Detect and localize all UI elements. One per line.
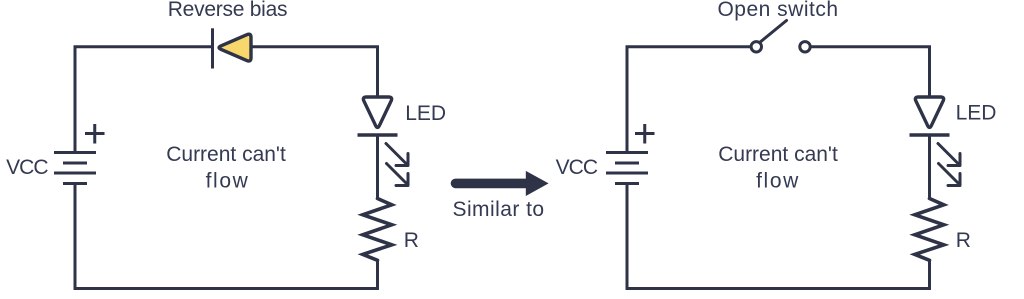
LED (right) triangle: [915, 97, 943, 127]
battery VCC (right) plate 4 short (-): [615, 182, 639, 185]
svg-text:R: R: [956, 229, 971, 252]
battery VCC (left) plate 1 long (+): [54, 151, 96, 154]
arrow: similar to (head): [526, 171, 549, 196]
battery VCC (left) plate 2 short: [63, 162, 87, 165]
switch S1 left contact: [751, 42, 761, 52]
wire: left circuit top run, VCC+ up to diode cathode bar: [75, 47, 213, 153]
svg-text:R: R: [404, 229, 419, 252]
battery VCC (left) plate 3 long: [54, 172, 96, 175]
plus sign (left battery): [85, 124, 105, 144]
LED (left) light arrow 2: [387, 164, 409, 186]
diode D1 (reverse-biased, yellow): [219, 34, 251, 61]
svg-text:Reverse bias: Reverse bias: [168, 0, 288, 21]
svg-text:LED: LED: [956, 102, 997, 125]
switch S1 right contact: [800, 42, 810, 52]
svg-text:Current can't: Current can't: [718, 143, 838, 166]
svg-text:Current can't: Current can't: [166, 143, 286, 166]
battery VCC (right) plate 3 long: [606, 172, 648, 175]
battery VCC (left) plate 4 short (-): [63, 182, 87, 185]
wire: right circuit bottom run (VCC- down, across bottom, up to resistor): [627, 184, 930, 289]
LED (left) light arrow 1: [386, 144, 408, 166]
LED (right) light arrow 2: [939, 164, 961, 186]
arrow: similar to (shaft): [456, 179, 528, 189]
wire: diode anode across to LED anode: [249, 47, 378, 98]
svg-text:flow: flow: [756, 169, 800, 192]
resistor R (right) zigzag: [915, 199, 944, 261]
LED (right) light arrow 1: [938, 144, 960, 166]
battery VCC (right) plate 2 short: [615, 162, 639, 165]
wire: right LED cathode to resistor top: [928, 135, 931, 199]
diode D1 cathode bar: [211, 28, 214, 68]
LED (left) cathode bar: [358, 133, 398, 136]
wire: left circuit bottom run (VCC- down, across bottom, up to resistor): [75, 184, 378, 289]
svg-text:Open switch: Open switch: [717, 0, 838, 21]
wire: right circuit top-left run (VCC+ up to switch): [627, 47, 751, 153]
LED (left) triangle: [363, 97, 391, 127]
wire: LED cathode to resistor top: [376, 135, 379, 199]
wire: right circuit top-right run (switch to LED anode): [810, 47, 929, 98]
LED (right) cathode bar: [910, 133, 950, 136]
svg-text:VCC: VCC: [556, 156, 598, 179]
switch S1 lever (open): [761, 21, 787, 42]
plus sign (right battery): [635, 124, 655, 144]
battery VCC (right) plate 1 long (+): [606, 151, 648, 154]
svg-text:LED: LED: [405, 102, 446, 125]
svg-text:Similar to: Similar to: [452, 198, 544, 221]
resistor R (left) zigzag: [363, 199, 392, 261]
svg-text:VCC: VCC: [6, 156, 48, 179]
svg-text:flow: flow: [206, 169, 250, 192]
